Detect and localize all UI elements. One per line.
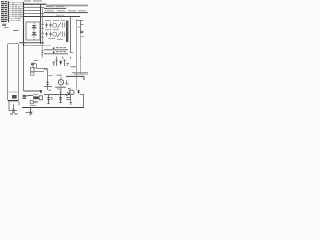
wire bottom bus H107 — [22, 107, 84, 109]
label row over H50 — [56, 47, 66, 49]
text block TP2 — [23, 95, 27, 98]
component dark box B2 — [33, 96, 39, 99]
transistor Q3 — [58, 80, 63, 85]
wire vertical V70 — [71, 17, 74, 53]
transistor Q3 leads — [60, 74, 63, 95]
capacitor C7 — [55, 60, 57, 67]
node A main vertical bus — [23, 2, 25, 46]
mark under D5 — [68, 89, 71, 90]
wire H87 — [55, 86, 66, 88]
wire top edge H45 — [24, 45, 44, 47]
label row over H54 — [56, 51, 66, 53]
title text row — [24, 0, 42, 2]
relay K2 coil box — [30, 67, 34, 71]
wire bus B2 — [24, 6, 45, 8]
label 10 — [78, 26, 81, 28]
transistor Q4 — [70, 90, 75, 95]
label 5V — [49, 74, 61, 76]
rectifier box U1 — [26, 22, 40, 40]
arrow into Q4 — [67, 92, 71, 96]
wire stub under Q4 — [66, 95, 71, 103]
wire K1 top corner — [77, 21, 84, 31]
diode CR2 — [32, 33, 36, 35]
wire inside U1 — [33, 22, 35, 40]
connector J1 body edge — [8, 1, 10, 22]
relay K2 box — [33, 64, 36, 68]
wire bus B6 — [24, 12, 45, 14]
wire vertical V80 lower — [80, 30, 82, 74]
wire branch V42 — [42, 46, 44, 58]
transistor Q1 — [53, 23, 57, 27]
small box TP3 — [30, 101, 33, 104]
node dot N3 — [40, 90, 42, 92]
label W2 — [13, 29, 19, 31]
wire K1 tick — [81, 24, 84, 26]
label under B2 — [33, 94, 38, 103]
wire right H73 — [72, 72, 88, 74]
wire M1 right lead down — [18, 101, 20, 106]
label row Q2 — [45, 29, 59, 31]
shielded component FL1 — [66, 21, 68, 43]
wire H86 — [44, 86, 52, 88]
component dark block in M1 — [12, 95, 17, 99]
wire bus B5 — [44, 12, 88, 14]
label row over B7 — [56, 14, 64, 16]
wire main horizontal H43 — [19, 42, 44, 44]
wire H94 bottom mid — [44, 94, 70, 96]
diode CR3 to ground — [29, 108, 32, 114]
capacitor C2 — [49, 23, 52, 29]
wire vertical V76 — [76, 19, 78, 90]
label under Q3 — [57, 88, 61, 90]
wire stubs U1 right — [40, 24, 44, 37]
wire H54 — [44, 53, 68, 55]
resistor R4 — [46, 82, 48, 84]
mark above B3 — [40, 90, 42, 93]
inductor L1 label — [34, 60, 39, 62]
wire right H77 — [66, 76, 84, 80]
wire vertical risers near J1 — [13, 3, 21, 21]
component D6 dark mark — [78, 90, 80, 94]
resistor R2 — [63, 32, 65, 37]
capacitor C1 — [45, 23, 48, 29]
capacitor C6 — [53, 62, 55, 67]
label beside V42 — [41, 51, 44, 55]
connector J1 pin label column — [1, 2, 8, 22]
capacitor C9 — [63, 60, 65, 67]
capacitor C5 — [12, 105, 15, 113]
wire inside M1 — [8, 91, 18, 93]
wire left L-shape to bottom — [24, 90, 41, 92]
module box M1 outline — [8, 43, 19, 100]
bar bottom of M1 — [8, 100, 18, 102]
resistor R1 — [63, 23, 65, 28]
tick above H94 — [49, 89, 52, 91]
label under Q2 — [48, 38, 63, 41]
resistor R3 ticks — [57, 57, 81, 60]
wire bus B3 — [44, 7, 66, 9]
label CR3 — [26, 111, 29, 113]
label near FL2 — [67, 64, 70, 66]
label at V80 top — [80, 31, 84, 32]
node dot N2 — [53, 51, 55, 53]
wire tick V80 — [81, 36, 85, 38]
wire dropper D1 — [40, 4, 42, 44]
label row Q1 — [45, 20, 65, 22]
label NC — [4, 27, 9, 29]
wire K2 out upper — [37, 67, 48, 69]
node dot N1 — [53, 47, 55, 49]
wire right H67 — [71, 66, 77, 68]
label above H107 — [30, 104, 36, 106]
wire top bus B1 — [24, 3, 47, 5]
component box B3 — [39, 96, 42, 100]
transistor Q2 — [53, 32, 57, 36]
wire top edge H45 ext — [44, 45, 51, 47]
wire pins J1 to bus — [9, 3, 24, 21]
capacitor C10 — [47, 95, 50, 104]
component D5 — [66, 81, 69, 85]
wire bus B4 — [24, 9, 41, 11]
label row over B5 — [45, 10, 86, 12]
arrow Q2 — [57, 32, 61, 37]
wire dropper D2 — [42, 8, 44, 45]
component cluster K2 — [31, 63, 35, 64]
diode CR1 — [32, 26, 36, 28]
wire right H74 — [74, 73, 88, 75]
small box TP1 — [31, 72, 34, 75]
wire H95 — [27, 94, 34, 96]
wire K2 out lower — [34, 71, 44, 73]
wire M1 left lead down — [9, 102, 17, 111]
label C10 value — [51, 97, 53, 99]
label W1 — [2, 24, 7, 25]
capacitor C3 — [45, 32, 48, 38]
wire bus B7 — [23, 16, 81, 18]
mark R5 — [70, 103, 73, 104]
wire top gray band — [46, 4, 88, 6]
wire big box left edge — [23, 46, 25, 91]
label under Q4 — [66, 97, 70, 99]
wire V47 vertical — [44, 69, 48, 90]
wire corner to bottom right — [80, 95, 84, 108]
capacitor C11 — [59, 91, 62, 103]
ground tick — [29, 114, 32, 116]
arrow Q1 — [57, 23, 61, 28]
wire H50 — [44, 49, 68, 51]
capacitor C8 — [60, 61, 62, 65]
label 4.4 — [10, 113, 18, 115]
label row over B3 — [46, 6, 64, 8]
capacitor C4 — [49, 32, 52, 38]
